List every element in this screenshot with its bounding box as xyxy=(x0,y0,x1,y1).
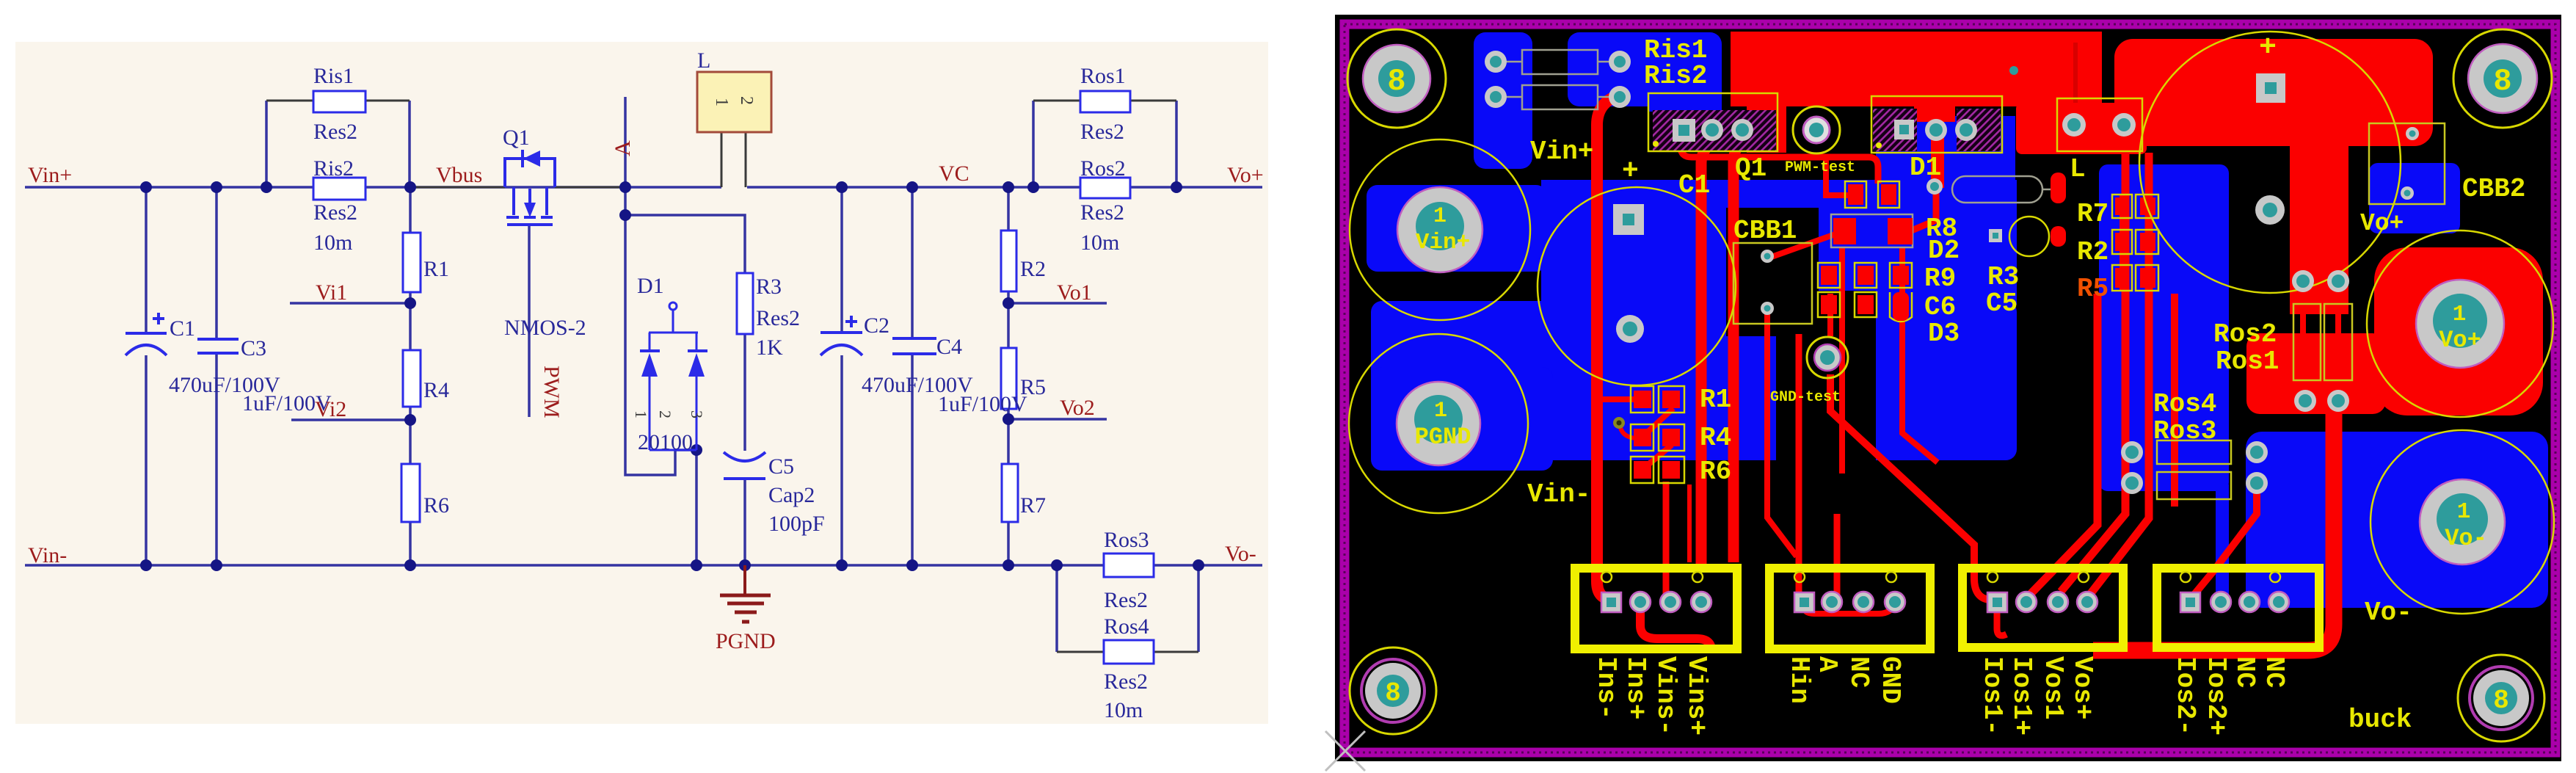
svg-text:Vin+: Vin+ xyxy=(1416,230,1470,255)
svg-text:2: 2 xyxy=(737,96,756,105)
svg-text:1: 1 xyxy=(1433,204,1447,229)
svg-text:3: 3 xyxy=(688,410,706,418)
svg-text:Ros3: Ros3 xyxy=(1104,528,1149,552)
svg-text:Ios1+: Ios1+ xyxy=(2006,656,2037,736)
svg-text:Vin-: Vin- xyxy=(1527,479,1590,509)
svg-text:Hin: Hin xyxy=(1784,656,1814,704)
svg-text:NC: NC xyxy=(1844,656,1874,688)
svg-text:Ins-: Ins- xyxy=(1591,656,1621,719)
svg-text:Ris1: Ris1 xyxy=(313,64,354,88)
svg-text:Ros4: Ros4 xyxy=(2153,389,2216,419)
svg-text:VC: VC xyxy=(939,162,969,186)
svg-text:D1: D1 xyxy=(637,274,664,298)
svg-text:8: 8 xyxy=(1387,64,1405,99)
svg-text:R5: R5 xyxy=(1020,375,1046,399)
svg-text:R7: R7 xyxy=(2077,199,2109,229)
svg-text:Ros4: Ros4 xyxy=(1104,614,1149,639)
svg-text:D2: D2 xyxy=(1928,236,1960,266)
svg-text:buck: buck xyxy=(2348,705,2412,735)
svg-text:R6: R6 xyxy=(423,493,449,518)
svg-text:Ros1: Ros1 xyxy=(1080,64,1126,88)
svg-text:1: 1 xyxy=(2453,302,2467,327)
svg-text:NC: NC xyxy=(2230,656,2260,688)
svg-text:C6: C6 xyxy=(1924,292,1956,322)
svg-text:8: 8 xyxy=(2493,64,2511,99)
svg-text:Vo2: Vo2 xyxy=(1060,396,1095,420)
svg-text:Vins-: Vins- xyxy=(1651,656,1681,736)
svg-text:PWM: PWM xyxy=(539,366,564,418)
svg-text:Ios2+: Ios2+ xyxy=(2201,656,2231,736)
svg-text:Vins+: Vins+ xyxy=(1681,656,1711,736)
svg-text:Ros2: Ros2 xyxy=(1080,156,1126,181)
svg-text:R1: R1 xyxy=(423,257,449,281)
svg-text:Vo-: Vo- xyxy=(2445,525,2487,552)
svg-text:+: + xyxy=(1622,156,1639,187)
svg-text:Res2: Res2 xyxy=(1080,120,1124,144)
svg-text:Vbus: Vbus xyxy=(436,163,482,187)
svg-text:D1: D1 xyxy=(1910,153,1941,183)
svg-text:Ris2: Ris2 xyxy=(1644,61,1707,91)
svg-text:A: A xyxy=(611,140,635,156)
svg-text:C4: C4 xyxy=(936,335,962,359)
svg-text:Res2: Res2 xyxy=(313,120,357,144)
svg-text:Vi1: Vi1 xyxy=(316,280,347,305)
svg-text:Vo-: Vo- xyxy=(1225,542,1256,566)
svg-text:R5: R5 xyxy=(2077,274,2109,304)
svg-text:C2: C2 xyxy=(864,313,889,338)
svg-text:PWM-test: PWM-test xyxy=(1785,159,1855,176)
svg-text:1: 1 xyxy=(632,410,650,418)
svg-text:R7: R7 xyxy=(1020,493,1046,518)
svg-text:Vin+: Vin+ xyxy=(1530,137,1593,167)
svg-text:Ins+: Ins+ xyxy=(1620,656,1651,719)
svg-text:A: A xyxy=(1812,656,1842,672)
svg-text:Q1: Q1 xyxy=(1735,153,1767,184)
svg-text:R9: R9 xyxy=(1924,264,1956,294)
svg-text:10m: 10m xyxy=(1104,698,1143,722)
svg-text:NMOS-2: NMOS-2 xyxy=(504,316,586,340)
svg-text:C5: C5 xyxy=(768,454,794,479)
svg-text:R3: R3 xyxy=(1987,262,2019,292)
svg-text:Vo+: Vo+ xyxy=(2439,327,2481,354)
svg-text:CBB2: CBB2 xyxy=(2462,174,2525,204)
svg-text:1uF/100V: 1uF/100V xyxy=(938,392,1027,416)
svg-text:Vo-: Vo- xyxy=(2365,598,2412,628)
svg-text:R4: R4 xyxy=(1700,423,1731,453)
svg-text:C3: C3 xyxy=(241,336,266,360)
svg-text:1: 1 xyxy=(1434,399,1447,424)
svg-text:C5: C5 xyxy=(1986,288,2017,319)
svg-text:1: 1 xyxy=(712,98,731,106)
svg-text:L: L xyxy=(697,48,710,73)
svg-text:20100: 20100 xyxy=(638,430,693,454)
svg-text:D3: D3 xyxy=(1928,319,1960,349)
svg-text:PGND: PGND xyxy=(716,629,776,653)
svg-text:Vo+: Vo+ xyxy=(2360,210,2404,237)
svg-text:Vi2: Vi2 xyxy=(315,397,346,421)
svg-text:Vin+: Vin+ xyxy=(28,163,72,187)
svg-text:Q1: Q1 xyxy=(503,126,530,150)
svg-text:Ros1: Ros1 xyxy=(2216,346,2279,377)
svg-text:C1: C1 xyxy=(170,316,195,341)
svg-text:Vin-: Vin- xyxy=(28,543,67,567)
svg-text:Res2: Res2 xyxy=(1104,669,1148,694)
svg-text:R2: R2 xyxy=(2077,237,2109,267)
svg-text:Ios2-: Ios2- xyxy=(2170,656,2200,736)
svg-text:R2: R2 xyxy=(1020,257,1046,281)
svg-text:Vo1: Vo1 xyxy=(1057,280,1092,305)
svg-text:10m: 10m xyxy=(1080,231,1119,255)
svg-text:GND: GND xyxy=(1875,656,1905,704)
svg-text:Vo+: Vo+ xyxy=(1227,163,1264,187)
svg-text:100pF: 100pF xyxy=(768,512,825,536)
svg-text:R3: R3 xyxy=(756,275,782,299)
svg-text:Ris2: Ris2 xyxy=(313,156,354,181)
svg-text:Ros2: Ros2 xyxy=(2213,319,2277,349)
svg-text:R6: R6 xyxy=(1700,457,1731,487)
svg-text:R4: R4 xyxy=(423,378,449,402)
svg-text:PGND: PGND xyxy=(1415,424,1471,451)
svg-text:Vos+: Vos+ xyxy=(2067,656,2097,719)
svg-text:+: + xyxy=(2259,32,2277,65)
svg-text:GND-test: GND-test xyxy=(1770,389,1841,406)
svg-text:1K: 1K xyxy=(756,335,783,360)
svg-text:8: 8 xyxy=(2493,686,2509,716)
svg-text:NC: NC xyxy=(2259,656,2289,688)
svg-text:Vos1: Vos1 xyxy=(2038,656,2068,719)
svg-text:Res2: Res2 xyxy=(1080,200,1124,225)
svg-text:Ios1-: Ios1- xyxy=(1977,656,2007,736)
svg-text:C1: C1 xyxy=(1678,170,1710,200)
svg-text:L: L xyxy=(2070,154,2086,184)
svg-text:Res2: Res2 xyxy=(756,306,800,330)
svg-text:R1: R1 xyxy=(1700,385,1731,415)
svg-text:CBB1: CBB1 xyxy=(1733,216,1797,246)
svg-text:Ros3: Ros3 xyxy=(2153,416,2216,446)
svg-text:1: 1 xyxy=(2457,499,2471,525)
svg-text:Cap2: Cap2 xyxy=(768,483,815,507)
svg-text:10m: 10m xyxy=(313,231,352,255)
svg-text:Res2: Res2 xyxy=(313,200,357,225)
svg-text:Res2: Res2 xyxy=(1104,588,1148,612)
svg-text:2: 2 xyxy=(656,410,674,418)
svg-text:8: 8 xyxy=(1385,678,1401,708)
